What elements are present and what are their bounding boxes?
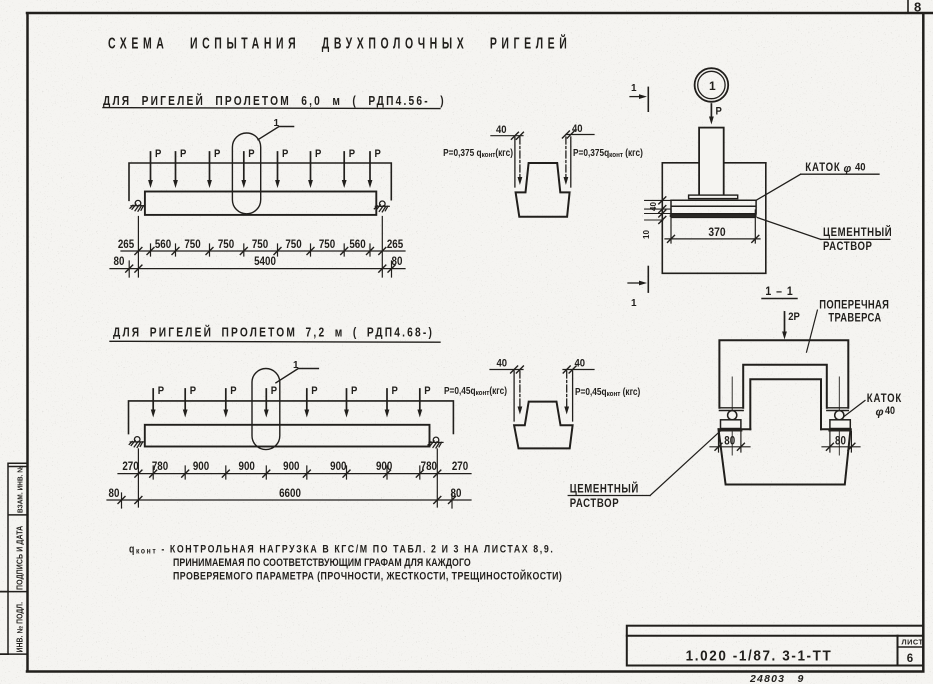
svg-text:750: 750 [252,238,268,251]
svg-text:750: 750 [319,238,335,251]
svg-text:750: 750 [184,238,200,251]
right cement bed [830,429,850,432]
left pin support diagram 2 [129,437,144,448]
svg-text:270: 270 [122,460,138,473]
svg-text:2P: 2P [788,311,800,323]
dimension row 2 diagram 2 [107,493,471,508]
svg-text:900: 900 [376,460,392,473]
dim 80 left section 1-1 [710,432,750,452]
cross-section 2 load lines right [572,371,574,421]
svg-text:780: 780 [421,460,437,473]
dimension row 2 diagram 1 [110,261,405,277]
svg-text:40: 40 [649,202,658,211]
svg-text:ПОДПИСЬ И ДАТА: ПОДПИСЬ И ДАТА [15,525,25,590]
svg-text:ЛИСТ: ЛИСТ [902,638,924,647]
svg-text:1 – 1: 1 – 1 [765,285,793,298]
svg-text:900: 900 [239,460,255,473]
cross-section 2 girder profile [514,402,573,449]
dimension row 1 diagram 1 [121,217,405,278]
traverse side rectangle [662,163,766,273]
right pin support diagram 1 [374,201,389,212]
svg-text:ВЗАМ. ИНВ. №: ВЗАМ. ИНВ. № [17,465,24,513]
capsule leader diagram 2 [276,369,319,383]
svg-text:ТРАВЕРСА: ТРАВЕРСА [828,311,881,324]
right roller plate [830,420,850,429]
P labels diagram 2 [158,385,431,397]
cross-section 1 girder profile [516,163,570,217]
katok label section 1-1 [867,392,902,418]
svg-text:P: P [375,148,381,160]
svg-text:P=0,375 qконт(кгс): P=0,375 qконт(кгс) [443,147,513,159]
svg-text:900: 900 [330,460,346,473]
beam 2 body [145,425,430,447]
svg-text:80: 80 [451,487,462,500]
svg-text:40: 40 [496,124,507,136]
detail capsule diagram 2 [252,369,280,450]
svg-text:P: P [349,148,355,160]
svg-text:P: P [158,385,164,397]
svg-text:750: 750 [285,238,301,251]
cement leader bottom [650,431,720,496]
traverse leader [807,310,818,352]
svg-text:ПРОВЕРЯЕМОГО ПАРАМЕТРА (ПРОЧН: ПРОВЕРЯЕМОГО ПАРАМЕТРА (ПРОЧНОСТИ, ЖЕСТК… [173,569,562,582]
cement mortar label top [823,225,892,253]
diagram2 loading frame [129,401,454,434]
svg-text:ДЛЯ РИГЕЛЕЙ ПРОЛЕТОМ 6,0 м: ДЛЯ РИГЕЛЕЙ ПРОЛЕТОМ 6,0 м ( РДП4.56- ) [103,94,446,108]
girder flange ledges section 1-1 [719,428,851,430]
dimension texts row 1 diagram 1 [118,238,403,251]
girder base section 1-1 [719,429,851,484]
dimension texts row 2 diagram 2 [109,487,462,500]
detail circle 1 [695,68,729,102]
svg-text:40: 40 [497,358,508,370]
svg-text:80: 80 [835,435,846,448]
svg-text:265: 265 [387,238,403,251]
svg-text:P: P [716,106,722,118]
svg-text:P: P [392,385,398,397]
svg-text:СХЕМА ИСПЫТАНИЯ ДВУХПОЛОЧНЫХ: СХЕМА ИСПЫТАНИЯ ДВУХПОЛОЧНЫХ РИГЕЛЕЙ [108,34,571,51]
svg-text:80: 80 [724,435,735,448]
svg-text:6: 6 [907,653,913,665]
svg-text:1: 1 [709,79,716,93]
svg-text:8: 8 [914,0,921,15]
svg-text:1.020 -1/87. 3-1-ТТ: 1.020 -1/87. 3-1-ТТ [686,648,833,665]
diagram1 loading frame [129,163,391,200]
svg-text:780: 780 [152,460,168,473]
svg-text:P: P [315,148,321,160]
svg-text:750: 750 [218,238,234,251]
svg-text:40: 40 [575,358,586,370]
left roller plate [721,420,741,429]
traverse label [819,299,889,325]
svg-text:40: 40 [572,123,583,135]
svg-text:P: P [351,385,357,397]
svg-text:900: 900 [283,460,299,473]
detail capsule diagram 1 [232,133,260,214]
P arrow on jack column [710,104,712,117]
capsule leader diagram 1 [258,127,294,140]
cross-section 1 load lines right [570,137,572,187]
traverse leg bottom plates [719,408,848,411]
svg-text:P: P [180,148,186,160]
svg-text:560: 560 [349,238,365,251]
section mark 1 top [647,87,649,111]
load arrows P diagram 2 [151,389,422,418]
svg-text:P=0,45qконт(кгс): P=0,45qконт(кгс) [444,385,507,397]
svg-text:КАТОК: КАТОК [805,161,840,174]
girder web section 1-1 [750,379,821,429]
svg-text:РАСТВОР: РАСТВОР [570,497,620,510]
left margin stamp column [8,463,28,654]
right roller katok [835,411,844,420]
svg-text:P: P [230,385,236,397]
traverse portal outer [719,340,848,408]
svg-text:1: 1 [631,83,637,94]
svg-text:80: 80 [392,255,403,268]
traverse portal inner [743,365,827,408]
svg-text:φ: φ [876,407,884,419]
P labels diagram 1 [155,148,381,160]
left dim stack 40 10 [645,200,671,220]
svg-text:P=0,375qконт (кгс): P=0,375qконт (кгс) [573,147,643,159]
svg-text:ДЛЯ РИГЕЛЕЙ ПРОЛЕТОМ 7,2 м: ДЛЯ РИГЕЛЕЙ ПРОЛЕТОМ 7,2 м ( РДП4.68-) [113,326,434,340]
svg-text:РАСТВОР: РАСТВОР [823,240,873,253]
katok leader section 1-1 [844,401,865,417]
svg-text:P: P [424,385,430,397]
svg-text:24803 9: 24803 9 [749,673,805,684]
jack column [699,128,724,197]
cross-section 1 load lines left [514,137,516,187]
svg-text:φ: φ [844,163,852,175]
svg-text:900: 900 [193,460,209,473]
dim 80 right section 1-1 [822,432,860,452]
svg-text:270: 270 [452,460,468,473]
roller strip katok [671,200,756,214]
subtitle 1 underline [103,108,440,109]
page number cell top right [907,0,909,13]
svg-text:6600: 6600 [279,487,301,500]
svg-text:P: P [248,148,254,160]
svg-text:ПОПЕРЕЧНАЯ: ПОПЕРЕЧНАЯ [819,299,889,312]
svg-text:P: P [282,148,288,160]
right pin support diagram 2 [428,437,443,448]
margin tick marks [0,592,8,655]
svg-text:80: 80 [114,255,125,268]
katok leader [756,174,801,200]
dimension texts row 2 diagram 1 [114,255,403,268]
svg-text:10: 10 [642,230,651,239]
svg-text:40: 40 [885,405,895,417]
cement leader top [757,218,821,240]
svg-text:265: 265 [118,238,134,251]
svg-text:P: P [271,385,277,397]
svg-text:1: 1 [274,118,280,129]
cross-section 2 load lines left [513,371,515,421]
svg-text:1: 1 [293,360,299,371]
note text [129,544,562,583]
left roller katok [728,411,737,420]
svg-text:80: 80 [109,487,120,500]
svg-text:P: P [190,385,196,397]
katok label [805,161,865,175]
cross-section 1 dim lines 40 [491,135,594,136]
plate under column [689,195,738,199]
svg-text:370: 370 [708,226,725,239]
dimension texts row 1 diagram 2 [122,460,468,473]
svg-text:qконт - КОНТРОЛЬНАЯ НАГРУЗКА: qконт - КОНТРОЛЬНАЯ НАГРУЗКА В КГС/М ПО … [129,544,554,556]
section mark 1 bottom [647,267,649,293]
rotated dim 40 and 10 [642,202,658,239]
title block [627,626,924,666]
svg-text:ИНВ. № ПОДЛ.: ИНВ. № ПОДЛ. [15,602,25,653]
cross-section 2 dim lines 40 [490,369,594,371]
svg-text:P: P [155,148,161,160]
svg-text:5400: 5400 [254,255,276,268]
left cement bed [721,429,741,432]
subtitle 2 underline [110,340,440,343]
roller centerlines [732,377,839,455]
left pin support diagram 1 [130,200,145,211]
dimension row 1 diagram 2 [118,449,471,507]
svg-text:560: 560 [155,238,171,251]
dim 370 [665,210,760,243]
cement mortar layer top detail [671,214,755,217]
svg-text:ЦЕМЕНТНЫЙ: ЦЕМЕНТНЫЙ [823,225,892,239]
svg-text:ПРИНИМАЕМАЯ ПО СООТВЕТСТВУЮЩИ: ПРИНИМАЕМАЯ ПО СООТВЕТСТВУЮЩИМ ГРАФАМ ДЛ… [173,557,471,569]
svg-text:1: 1 [631,298,637,309]
beam 1 body [145,192,376,215]
svg-text:P: P [311,385,317,397]
load arrows P diagram 1 [148,152,372,188]
2P load arrow [784,312,786,332]
svg-text:ЦЕМЕНТНЫЙ: ЦЕМЕНТНЫЙ [570,481,639,495]
svg-text:40: 40 [855,162,866,174]
svg-text:КАТОК: КАТОК [867,392,902,405]
cement mortar label bottom [570,481,639,510]
svg-text:P: P [214,148,220,160]
